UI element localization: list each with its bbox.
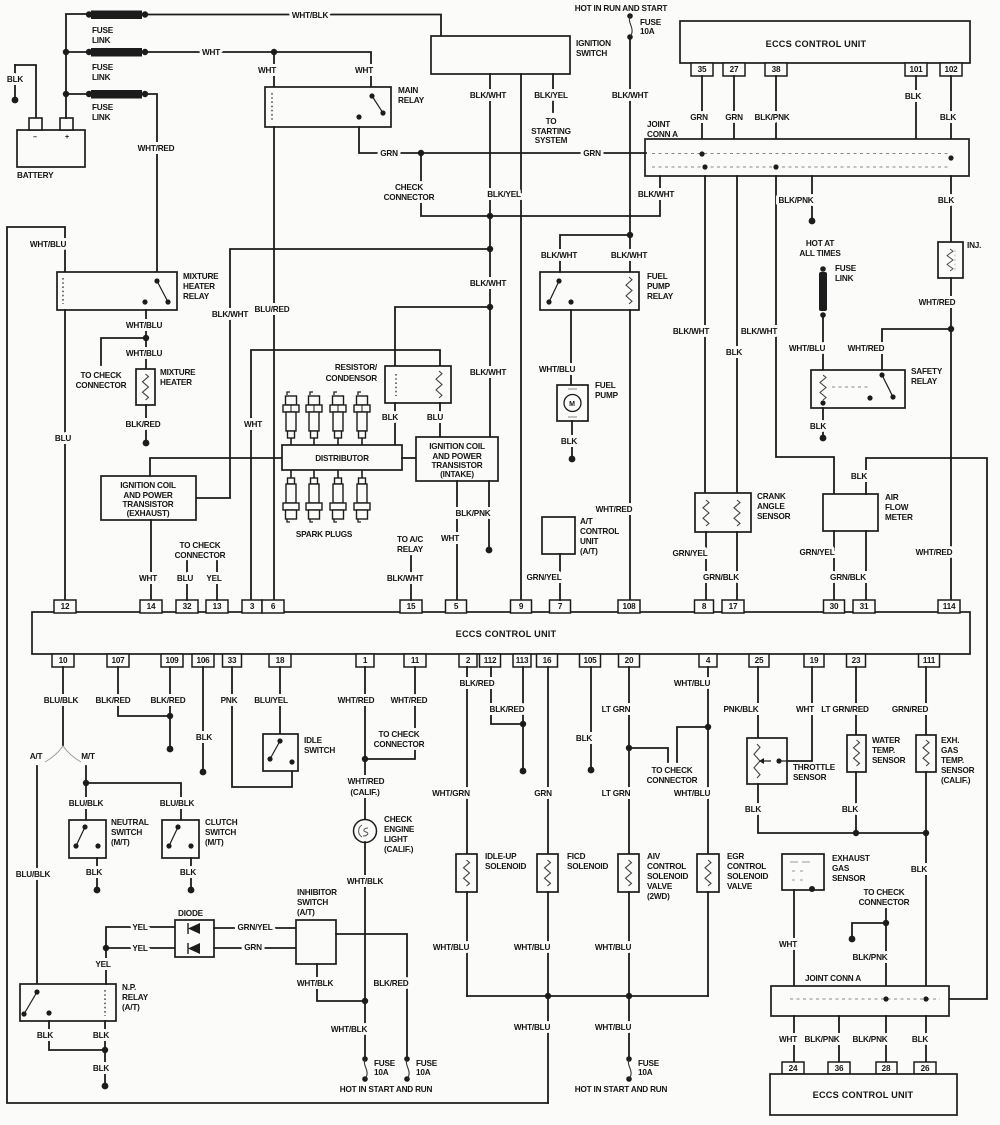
svg-text:WHT/BLK: WHT/BLK — [331, 1025, 368, 1034]
svg-text:FUEL: FUEL — [647, 272, 668, 281]
wire WHT/RED pin 1 to check engine light — [364, 667, 366, 820]
node WHT/RED junction — [948, 326, 954, 332]
node BLK/PNK junction — [883, 920, 889, 926]
svg-text:A/T: A/T — [580, 517, 593, 526]
pin 7 — [550, 600, 571, 613]
wire YEL relay coil to diode — [106, 927, 175, 984]
svg-text:VALVE: VALVE — [647, 882, 673, 891]
wire branch to check connector — [629, 748, 668, 762]
wire BLK/WHT joint A to air flow meter — [776, 176, 834, 494]
svg-text:TEMP.: TEMP. — [872, 746, 895, 755]
svg-text:WHT/RED: WHT/RED — [916, 548, 953, 557]
svg-text:BLK/WHT: BLK/WHT — [741, 327, 778, 336]
svg-text:16: 16 — [543, 656, 552, 665]
svg-text:24: 24 — [789, 1064, 798, 1073]
A/T control unit U3 — [542, 517, 575, 554]
check engine light L1 — [354, 820, 377, 843]
pin 38 — [765, 63, 787, 76]
svg-text:BLK: BLK — [180, 868, 197, 877]
wire WHT/BLU relay to fuel pump — [570, 310, 572, 385]
node bus junction FICD — [545, 993, 551, 999]
svg-text:BLU/BLK: BLU/BLK — [16, 870, 51, 879]
svg-text:BATTERY: BATTERY — [17, 171, 54, 180]
svg-text:GRN/YEL: GRN/YEL — [238, 923, 273, 932]
pin 12 — [54, 600, 76, 613]
svg-text:MAIN: MAIN — [398, 86, 418, 95]
svg-text:BLK/PNK: BLK/PNK — [755, 113, 790, 122]
svg-text:WHT: WHT — [139, 574, 157, 583]
wire GRN/YEL crank to pin 8 — [705, 532, 707, 600]
svg-text:GRN/YEL: GRN/YEL — [527, 573, 562, 582]
svg-text:AIR: AIR — [885, 493, 899, 502]
svg-text:AND POWER: AND POWER — [432, 452, 481, 461]
node BLK/PNK end — [486, 547, 493, 554]
svg-text:BLK/WHT: BLK/WHT — [638, 190, 675, 199]
svg-text:BLK: BLK — [938, 196, 955, 205]
svg-text:BLK: BLK — [576, 734, 593, 743]
svg-text:RELAY: RELAY — [647, 292, 674, 301]
node dot 1 — [883, 996, 888, 1001]
svg-text:M/T: M/T — [81, 752, 95, 761]
node BLK/RED end — [167, 746, 174, 753]
svg-text:RESISTOR/: RESISTOR/ — [335, 363, 378, 372]
wire BLK/RED pin 113 stub — [522, 667, 524, 771]
pin 113 — [513, 654, 531, 667]
wire BLK/YEL stub to starting system — [552, 74, 554, 112]
svg-text:BLK/WHT: BLK/WHT — [673, 327, 710, 336]
wire WHT/GRN pin 2 to idle-up solenoid — [466, 667, 468, 854]
svg-text:A/T: A/T — [30, 752, 43, 761]
svg-text:WHT: WHT — [779, 940, 797, 949]
svg-text:(A/T): (A/T) — [297, 908, 315, 917]
wire BLK/WHT ignition to intake coil — [489, 74, 491, 437]
node BLK end — [569, 456, 576, 463]
wire WHT intake coil to pin 5 — [456, 481, 458, 600]
ECCS control unit (top) U1 — [680, 21, 970, 63]
pin 26 — [914, 1062, 936, 1074]
svg-text:WHT/BLU: WHT/BLU — [433, 943, 470, 952]
svg-text:(M/T): (M/T) — [111, 838, 130, 847]
node stub end — [849, 936, 856, 943]
svg-text:BLK/RED: BLK/RED — [151, 696, 186, 705]
svg-text:LT GRN: LT GRN — [602, 705, 631, 714]
svg-text:INJ.: INJ. — [967, 241, 981, 250]
wire BLK throttle to ground bus — [758, 784, 927, 833]
wire BLK neutral switch stub — [96, 858, 98, 890]
svg-text:WHT/BLU: WHT/BLU — [539, 365, 576, 374]
svg-text:GRN: GRN — [380, 149, 398, 158]
svg-text:WHT/RED: WHT/RED — [391, 696, 428, 705]
pin 20 — [619, 654, 640, 667]
svg-text:101: 101 — [909, 65, 923, 74]
wire BLK joint A to crank angle sensor — [736, 176, 738, 493]
spark plug (upper) at x=338 — [334, 392, 337, 395]
wire GRN/YEL diode to inhibitor switch — [214, 927, 296, 929]
pin 14 — [140, 600, 162, 613]
wire WHT/RED branch to safety relay — [882, 329, 951, 370]
svg-text:WHT/RED: WHT/RED — [138, 144, 175, 153]
wire to check connector branch — [101, 338, 146, 365]
svg-text:BLK: BLK — [745, 805, 762, 814]
wire BLU/BLK M/T branch — [85, 766, 87, 820]
battery B1 — [17, 130, 85, 167]
svg-text:AND POWER: AND POWER — [123, 491, 172, 500]
wire GRN/YEL air flow to pin 30 — [833, 531, 835, 600]
wire WHT exhaust coil to pin 14 — [150, 520, 152, 600]
fuse F4 10A — [626, 1056, 632, 1062]
svg-text:YEL: YEL — [95, 960, 111, 969]
pin 2 — [459, 654, 477, 667]
svg-text:IDLE: IDLE — [304, 736, 323, 745]
svg-text:CHECK: CHECK — [384, 815, 412, 824]
svg-text:BLK: BLK — [912, 1035, 929, 1044]
ignition switch S1 — [431, 36, 570, 74]
svg-text:RELAY: RELAY — [911, 377, 938, 386]
svg-text:WATER: WATER — [872, 736, 900, 745]
svg-text:N.P.: N.P. — [122, 983, 136, 992]
wire BLK pin 105 stub — [590, 667, 592, 770]
svg-text:FUSE: FUSE — [835, 264, 857, 273]
node BLK/WHT junction y216 — [487, 213, 493, 219]
svg-text:YEL: YEL — [206, 574, 222, 583]
svg-text:RELAY: RELAY — [397, 545, 424, 554]
svg-text:M: M — [569, 401, 575, 408]
node GRN junction to check connector — [418, 150, 424, 156]
svg-text:SOLENOID: SOLENOID — [567, 862, 608, 871]
svg-text:SWITCH: SWITCH — [576, 49, 607, 58]
svg-text:GRN: GRN — [244, 943, 262, 952]
svg-text:BLK/RED: BLK/RED — [374, 979, 409, 988]
ignition coil and power transistor (exhaust) T1 — [101, 476, 196, 520]
svg-text:FICD: FICD — [567, 852, 586, 861]
svg-text:TO CHECK: TO CHECK — [179, 541, 220, 550]
spark plug (upper) at x=362 — [358, 392, 361, 395]
svg-text:BLK/PNK: BLK/PNK — [456, 509, 491, 518]
svg-text:WHT: WHT — [202, 48, 220, 57]
svg-text:BLK/PNK: BLK/PNK — [805, 1035, 840, 1044]
svg-text:4: 4 — [706, 656, 711, 665]
svg-text:18: 18 — [276, 656, 285, 665]
pin 4 — [699, 654, 717, 667]
svg-text:WHT/BLU: WHT/BLU — [789, 344, 826, 353]
wire BLK/WHT branch to relay switch — [560, 235, 630, 272]
wire LT GRN pin 20 to AIV solenoid — [628, 667, 630, 854]
svg-text:17: 17 — [729, 602, 738, 611]
wire BLK pin 106 stub — [202, 667, 204, 772]
svg-text:(EXHAUST): (EXHAUST) — [127, 509, 170, 518]
wire GRN/RED pin 111 to exh gas temp sensor — [925, 667, 927, 735]
spark plug (lower) at x=291 — [290, 470, 292, 478]
wire BLK water temp to bus — [855, 772, 857, 833]
svg-text:10A: 10A — [374, 1068, 389, 1077]
mixture heater relay K2 — [57, 272, 177, 310]
pin 9 — [511, 600, 532, 613]
svg-text:PNK/BLK: PNK/BLK — [724, 705, 759, 714]
svg-text:GRN/BLK: GRN/BLK — [830, 573, 866, 582]
svg-text:109: 109 — [165, 656, 179, 665]
wire WHT/BLU idle-up to bus — [466, 892, 468, 996]
svg-text:WHT: WHT — [355, 66, 373, 75]
node BLK/WHT junction y307 — [487, 304, 493, 310]
wire GRN pin27 to joint conn A — [733, 76, 735, 139]
resistor/condensor R2 — [385, 366, 451, 403]
svg-text:6: 6 — [271, 602, 276, 611]
node WHT/BLK junction with inhibitor output — [362, 998, 368, 1004]
svg-text:LINK: LINK — [835, 274, 854, 283]
svg-text:10A: 10A — [640, 27, 655, 36]
svg-text:FUSE: FUSE — [92, 103, 114, 112]
svg-text:BLU: BLU — [427, 413, 444, 422]
pin 32 — [176, 600, 198, 613]
wire BLK/PNK intake coil stub — [488, 481, 490, 550]
svg-text:IGNITION: IGNITION — [576, 39, 611, 48]
node BLK junction — [102, 1047, 108, 1053]
spark plug (lower) at x=362 — [361, 470, 363, 478]
wire BLK/YEL ignition to pin 9 — [520, 74, 522, 600]
wire BLK pin101 to joint conn A — [915, 76, 917, 139]
pin 27 — [723, 63, 745, 76]
fuse F1 10A — [627, 13, 633, 19]
svg-text:BLK/RED: BLK/RED — [126, 420, 161, 429]
svg-text:AIV: AIV — [647, 852, 661, 861]
wire WHT/BLU AIV to bus — [628, 892, 630, 996]
svg-text:BLK/WHT: BLK/WHT — [612, 91, 649, 100]
svg-text:(M/T): (M/T) — [205, 838, 224, 847]
svg-text:WHT/GRN: WHT/GRN — [432, 789, 470, 798]
wire BLK/PNK joint A to pin 28 — [885, 1016, 887, 1062]
svg-text:LIGHT: LIGHT — [384, 835, 408, 844]
svg-text:WHT/BLU: WHT/BLU — [126, 321, 163, 330]
node pin35 dot — [699, 151, 704, 156]
svg-text:CONNECTOR: CONNECTOR — [374, 740, 425, 749]
pin 107 — [107, 654, 129, 667]
svg-text:32: 32 — [183, 602, 192, 611]
wire cond branch — [395, 307, 490, 366]
svg-text:20: 20 — [625, 656, 634, 665]
wire BLK fuel pump stub — [571, 421, 573, 459]
svg-text:BLK: BLK — [905, 92, 922, 101]
svg-text:SENSOR: SENSOR — [793, 773, 827, 782]
svg-text:BLK: BLK — [382, 413, 399, 422]
svg-text:GRN/BLK: GRN/BLK — [703, 573, 739, 582]
svg-text:TO: TO — [546, 117, 558, 126]
svg-text:ANGLE: ANGLE — [757, 502, 785, 511]
svg-text:FLOW: FLOW — [885, 503, 909, 512]
svg-text:7: 7 — [558, 602, 563, 611]
svg-text:WHT: WHT — [244, 420, 262, 429]
svg-text:3: 3 — [250, 602, 255, 611]
svg-text:WHT: WHT — [779, 1035, 797, 1044]
svg-text:CHECK: CHECK — [395, 183, 423, 192]
pin 102 — [940, 63, 962, 76]
node battery-fuselink junction 1 — [63, 49, 69, 55]
svg-text:12: 12 — [61, 602, 70, 611]
svg-text:BLU/BLK: BLU/BLK — [160, 799, 195, 808]
node x705 dot — [702, 164, 707, 169]
wire BLU/BLK A/T branch to N.P. relay — [36, 766, 38, 984]
svg-text:EXH.: EXH. — [941, 736, 959, 745]
svg-text:WHT/BLU: WHT/BLU — [674, 789, 711, 798]
wire GRN main relay to joint conn A — [359, 127, 646, 153]
svg-text:LINK: LINK — [92, 73, 111, 82]
N.P. relay K5 — [20, 984, 116, 1021]
svg-text:BLK: BLK — [7, 75, 24, 84]
fuse F3 10A — [404, 1056, 410, 1062]
wire WHT/BLU left loop to bottom rail — [7, 227, 548, 1103]
pin 36 — [828, 1062, 850, 1074]
svg-text:–: – — [33, 134, 37, 141]
wire WHT exhaust gas sensor to joint conn A — [793, 890, 795, 986]
pin 31 — [853, 600, 875, 613]
svg-text:CONNECTOR: CONNECTOR — [384, 193, 435, 202]
wire WHT joint A to pin 24 — [793, 1016, 795, 1062]
wire GRN/YEL A/T unit to pin 7 — [559, 554, 561, 600]
svg-text:BLK: BLK — [93, 1031, 110, 1040]
svg-text:WHT/BLK: WHT/BLK — [297, 979, 334, 988]
node pin38 dot — [773, 164, 778, 169]
svg-text:BLU/RED: BLU/RED — [255, 305, 290, 314]
wire BLK clutch switch stub — [190, 858, 192, 890]
svg-text:BLU: BLU — [55, 434, 72, 443]
svg-text:BLK/WHT: BLK/WHT — [470, 368, 507, 377]
wire BLK/PNK pin38 to joint conn A — [775, 76, 777, 167]
svg-text:111: 111 — [923, 656, 936, 665]
svg-text:WHT/BLU: WHT/BLU — [126, 349, 163, 358]
pin 28 — [876, 1062, 897, 1074]
pin 15 — [400, 600, 422, 613]
wire GRN pin 16 to FICD solenoid — [547, 667, 549, 854]
svg-text:30: 30 — [830, 602, 839, 611]
svg-text:FUSE: FUSE — [92, 63, 114, 72]
node WHT junction — [271, 49, 277, 55]
svg-text:23: 23 — [852, 656, 861, 665]
svg-text:HOT IN START AND RUN: HOT IN START AND RUN — [575, 1085, 668, 1094]
svg-text:(2WD): (2WD) — [647, 892, 670, 901]
svg-text:LT GRN: LT GRN — [602, 789, 631, 798]
pin 109 — [161, 654, 183, 667]
pin 16 — [537, 654, 558, 667]
svg-text:1: 1 — [363, 656, 368, 665]
svg-text:TRANSISTOR: TRANSISTOR — [431, 461, 482, 470]
svg-text:107: 107 — [111, 656, 125, 665]
wire YEL to pin 13 — [216, 561, 218, 600]
battery negative wire + BLK stub — [15, 65, 36, 118]
svg-text:IGNITION COIL: IGNITION COIL — [429, 442, 485, 451]
wire BLK/RED pin 107 — [118, 667, 170, 716]
svg-text:STARTING: STARTING — [531, 127, 571, 136]
svg-text:SOLENOID: SOLENOID — [727, 872, 768, 881]
svg-text:112: 112 — [484, 656, 497, 665]
wire BLU to pin 32 — [186, 561, 188, 600]
svg-text:26: 26 — [921, 1064, 930, 1073]
wire YEL second to diode — [106, 947, 175, 949]
svg-text:SWITCH: SWITCH — [111, 828, 142, 837]
svg-text:TEMP.: TEMP. — [941, 756, 964, 765]
wire BLK/WHT joint A to crank angle sensor — [704, 176, 706, 493]
wire PNK/BLK pin 25 to throttle sensor — [757, 667, 759, 738]
svg-text:GRN: GRN — [690, 113, 708, 122]
node BLK/WHT junction y249 — [487, 246, 493, 252]
svg-text:TO CHECK: TO CHECK — [378, 730, 419, 739]
svg-text:28: 28 — [882, 1064, 891, 1073]
wire battery positive to fuse links — [66, 14, 89, 118]
svg-text:SENSOR: SENSOR — [832, 874, 866, 883]
pin 108 — [618, 600, 640, 613]
wire BLK/RED pin 112 — [491, 667, 523, 724]
node WHT/RED junction — [362, 756, 368, 762]
svg-text:2: 2 — [466, 656, 471, 665]
wire BLK air flow meter to bottom joint conn A via right margin — [866, 458, 987, 999]
svg-text:14: 14 — [147, 602, 156, 611]
wire BLK exh gas temp to bus and joint conn A — [925, 772, 927, 986]
svg-text:ECCS CONTROL UNIT: ECCS CONTROL UNIT — [456, 629, 557, 639]
svg-text:SENSOR: SENSOR — [872, 756, 906, 765]
svg-text:LINK: LINK — [92, 36, 111, 45]
spark plug (upper) at x=314 — [310, 392, 313, 395]
svg-text:BLK: BLK — [196, 733, 213, 742]
wire BLK coil output — [104, 1021, 106, 1086]
svg-text:ENGINE: ENGINE — [384, 825, 415, 834]
svg-text:WHT/BLK: WHT/BLK — [347, 877, 384, 886]
svg-text:FUSE: FUSE — [638, 1059, 660, 1068]
svg-text:HOT IN START AND RUN: HOT IN START AND RUN — [340, 1085, 433, 1094]
node BLK/WHT branch junction — [627, 232, 633, 238]
distributor — [282, 445, 402, 470]
wire WHT/BLK fuse link 1 to ignition switch — [145, 15, 441, 37]
svg-text:SOLENOID: SOLENOID — [647, 872, 688, 881]
svg-text:BLK/WHT: BLK/WHT — [387, 574, 424, 583]
ECCS control unit (bottom) U4 — [770, 1074, 957, 1115]
svg-text:JOINT CONN A: JOINT CONN A — [805, 974, 861, 983]
svg-text:WHT: WHT — [258, 66, 276, 75]
wire BLK safety relay stub — [822, 408, 824, 438]
pin 24 — [782, 1062, 804, 1074]
svg-text:WHT/RED: WHT/RED — [338, 696, 375, 705]
svg-text:19: 19 — [810, 656, 819, 665]
svg-text:BLK: BLK — [940, 113, 957, 122]
wire distributor to intake coil — [402, 457, 416, 459]
svg-text:SOLENOID: SOLENOID — [485, 862, 526, 871]
wire BLK/RED heater stub — [145, 405, 147, 443]
svg-text:HEATER: HEATER — [183, 282, 215, 291]
svg-text:BLK/RED: BLK/RED — [460, 679, 495, 688]
svg-text:36: 36 — [835, 1064, 844, 1073]
svg-text:SENSOR: SENSOR — [757, 512, 791, 521]
pin 13 — [206, 600, 228, 613]
wire BLK/RED pin 109 stub — [169, 667, 171, 749]
svg-text:102: 102 — [944, 65, 958, 74]
node BLK end — [200, 769, 207, 776]
svg-text:BLK: BLK — [561, 437, 578, 446]
wire BLK pin102 to joint conn A — [950, 76, 952, 158]
wire WHT/BLK inhibitor bottom output — [317, 964, 365, 1001]
wire WHT/BLU fuse link to safety relay — [822, 315, 824, 370]
svg-text:BLK: BLK — [86, 868, 103, 877]
svg-text:8: 8 — [702, 602, 707, 611]
node BLK/RED junction — [520, 721, 526, 727]
svg-text:LINK: LINK — [92, 113, 111, 122]
wire BLK/WHT to exhaust coil right — [196, 249, 490, 498]
svg-text:HOT AT: HOT AT — [806, 239, 835, 248]
svg-text:BLK/YEL: BLK/YEL — [534, 91, 568, 100]
svg-text:BLK/PNK: BLK/PNK — [853, 953, 888, 962]
svg-text:JOINT: JOINT — [647, 120, 670, 129]
svg-text:105: 105 — [583, 656, 597, 665]
svg-text:WHT/BLU: WHT/BLU — [595, 1023, 632, 1032]
air flow meter — [823, 494, 878, 531]
svg-text:108: 108 — [622, 602, 636, 611]
node BLK end — [102, 1083, 109, 1090]
